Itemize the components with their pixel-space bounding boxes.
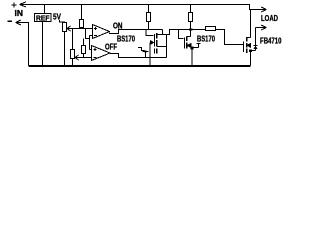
wire tap jog to comparator inputs bbox=[86, 29, 93, 50]
svg-text:OFF: OFF bbox=[105, 43, 117, 52]
wire P1 bottom to rail bbox=[64, 32, 66, 66]
wire M1 drain lead bbox=[157, 34, 163, 36]
wire node A down to trimmer P2 bbox=[72, 29, 74, 50]
wire minus input arrow bbox=[16, 20, 22, 25]
node + input label bbox=[12, 3, 17, 8]
svg-text:LOAD: LOAD bbox=[261, 14, 278, 23]
junction dot M2 source bbox=[191, 47, 194, 50]
resistor R3 top stub bbox=[148, 5, 150, 13]
resistor R2 body bbox=[82, 46, 86, 54]
transistor M1 body arrow bbox=[151, 41, 154, 45]
wire output net jog at M1 drain bbox=[163, 30, 206, 35]
wire P1 wiper line to comparator U1 plus bbox=[67, 28, 93, 30]
resistor R2 top stub bbox=[83, 39, 85, 46]
junction diode at U2 output bbox=[143, 52, 149, 58]
wire M2 source to rail bbox=[191, 48, 193, 66]
wire M2 drain lead bbox=[187, 30, 191, 37]
resistor R4 body bbox=[189, 13, 193, 22]
transistor M2 channel bar bbox=[186, 37, 188, 49]
svg-text:5V: 5V bbox=[53, 13, 62, 22]
wire net down to M1 gate bbox=[146, 30, 154, 36]
wire U1 output with step bbox=[110, 30, 163, 34]
resistor R4 top stub bbox=[190, 5, 192, 13]
wire R5 to FB4710 gate bbox=[216, 30, 244, 45]
wire P2 wiper to comparator U2 minus bbox=[75, 57, 92, 59]
diode M3 body diode bbox=[251, 28, 258, 51]
op-amp U1 triangle bbox=[93, 25, 110, 39]
potentiometer P1 body bbox=[63, 23, 67, 32]
resistor R1 body bbox=[80, 20, 84, 28]
resistor R3 body bbox=[147, 13, 151, 22]
transistor M1 channel bar bbox=[156, 33, 158, 47]
wire M1 source line right bbox=[157, 46, 167, 48]
wire top rail bbox=[20, 5, 267, 10]
transistor M1 gate bar bbox=[154, 34, 156, 47]
trimmer P2 body bbox=[71, 50, 75, 59]
trimmer P2 wiper arrow bbox=[75, 55, 79, 60]
op-amp U1 minus marker bbox=[94, 35, 97, 37]
diode M2 source clamp bbox=[194, 44, 201, 48]
transistor M1 lower channel dashes bbox=[155, 49, 157, 54]
junction dot M3 source bbox=[249, 49, 252, 52]
wire P2 bottom to rail bbox=[72, 59, 74, 66]
transistor M3 body arrow bbox=[247, 43, 251, 47]
wire M3 source to rail bbox=[250, 51, 252, 66]
wire REF bottom to rail bbox=[42, 22, 44, 66]
wire M1 source to bottom rail bbox=[149, 43, 151, 66]
wire R1 bottom to wiper line bbox=[81, 28, 83, 29]
node - input label bbox=[8, 20, 13, 22]
wire 5V node to pot P1 bbox=[60, 20, 65, 23]
wire R4 bottom to net bbox=[190, 22, 192, 30]
wire top rail to REF bbox=[44, 5, 46, 14]
svg-text:IN: IN bbox=[15, 9, 24, 18]
wire load arrow bbox=[261, 7, 267, 12]
wire R2 bottom to P2 wiper line bbox=[83, 54, 85, 58]
op-amp U2 plus marker bbox=[94, 48, 97, 51]
op-amp U2 minus marker bbox=[94, 57, 97, 59]
voltage reference REF box bbox=[35, 14, 52, 22]
transistor M2 gate bar bbox=[184, 38, 186, 49]
svg-text:BS170: BS170 bbox=[197, 35, 215, 44]
svg-text:FB4710: FB4710 bbox=[260, 37, 282, 46]
transistor M3 gate bar bbox=[243, 42, 245, 53]
wire plus input arrow bbox=[20, 2, 27, 7]
svg-text:REF: REF bbox=[36, 13, 50, 22]
potentiometer P1 wiper arrow bbox=[67, 26, 71, 31]
wire vertical M1 drain to output wire bbox=[166, 35, 168, 58]
wire U2 output with step bbox=[110, 54, 167, 58]
transistor M2 body arrow bbox=[187, 44, 191, 48]
op-amp U1 plus marker bbox=[94, 27, 97, 30]
transistor M3 channel bar bbox=[246, 37, 248, 53]
wire M3 drain to load line bbox=[247, 10, 251, 38]
wire net down to M2 gate bbox=[179, 30, 184, 39]
wire R3 bottom to output net bbox=[148, 22, 150, 30]
wire minus input to bottom rail bbox=[16, 23, 29, 66]
wire bottom rail bbox=[29, 66, 251, 67]
svg-text:BS170: BS170 bbox=[117, 35, 135, 44]
wire load return arrow bbox=[256, 25, 267, 30]
resistor R1 top stub bbox=[81, 5, 83, 20]
wire zigzag stub bbox=[138, 48, 145, 51]
op-amp U2 triangle bbox=[92, 46, 111, 61]
resistor R5 body horizontal bbox=[206, 27, 216, 31]
